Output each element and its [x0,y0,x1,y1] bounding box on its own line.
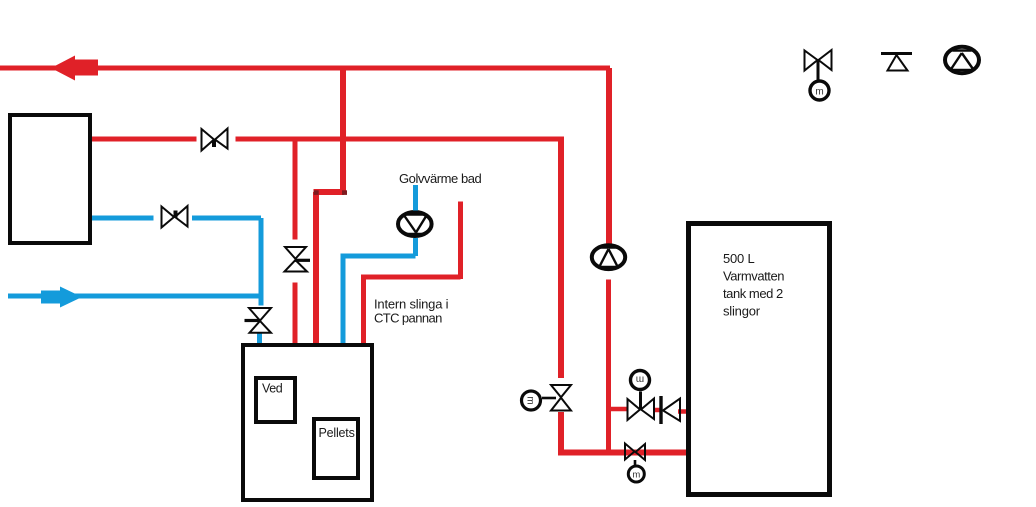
wire: blue line y218 from valve V2 right, then down x261 [192,218,261,306]
junction overdraw dots at jog corners [314,190,347,195]
motorized valve m (bottom tank line) [625,444,645,483]
wire: blue line y218 from left box to valve V2 [92,216,154,221]
wire: red line y139 from valve V1 to x564 [236,137,562,142]
3-way motor valve (on red x561) [522,385,572,411]
valve V1 (red line y139) [202,129,228,151]
svg-text:m: m [815,87,823,98]
wire: red line y139 from left box to valve V1 [92,137,197,142]
svg-text:500 L: 500 L [723,251,755,266]
wire: blue intern slinga (up from CTC box, right to pump riser) [341,238,416,344]
blue flow arrow pointing right [41,287,82,308]
wire: blue return line y296 with arrow [8,294,259,299]
wire: red vertical x295 from y139 down to hourglass valve H1 [293,139,298,240]
valve V2 (blue line y218) [162,206,188,228]
svg-text:Ved: Ved [262,382,283,396]
hourglass valve H2 (on blue x260) with left bar [245,308,272,333]
wire: blue stub above pump P1 (open end) [413,185,418,211]
svg-text:Varmvatten: Varmvatten [723,269,784,284]
Pellets box [314,419,358,478]
wire: red intern slinga loop (up from CTC box, right, up to open end) [361,202,461,345]
label: Intern slinga i CTC pannan [374,297,449,326]
wire: top red supply line [0,66,610,71]
svg-text:slingor: slingor [723,304,761,319]
svg-text:Intern slinga i: Intern slinga i [374,297,449,312]
wire: red vertical x561 from y139 down to 3-way valve [558,137,564,379]
hot water tank box [689,224,830,495]
svg-text:Golvvärme bad: Golvvärme bad [399,171,482,186]
wire: red branch y409 toward motor valve [606,407,627,412]
legend: safety valve symbol [881,54,912,71]
wire: red stub from check valve to tank [678,409,686,414]
svg-text:m: m [636,374,644,385]
left heat source box [10,115,90,243]
wire: red vertical x343 from top line down to jog y192 [340,68,346,192]
wire: red vertical x608.5 below pump down to bottom line [606,280,611,453]
check valve (upper tank line) [661,396,680,424]
pump P1 Golvvärme (on blue riser) [398,212,432,236]
motorized valve (upper tank line) [628,371,655,421]
svg-text:Pellets: Pellets [319,426,355,440]
wire: red vertical x317 from jog down to CTC box [313,192,319,344]
pump P2 (on red riser) [592,245,625,269]
wire: red stub x295 from valve H1 to CTC box [293,283,298,345]
svg-text:m: m [632,470,640,481]
svg-text:m: m [525,396,536,404]
wire: blue stub from valve H2 to CTC box [257,334,262,345]
svg-text:tank med 2: tank med 2 [723,286,783,301]
CTC pannan box [243,345,372,500]
svg-text:CTC pannan: CTC pannan [374,311,442,326]
Ved box [256,378,295,422]
wire: red from 3-way valve down and right to tank (bottom line) [558,412,686,453]
wire: red jog y192 [314,189,345,195]
wire: red stub between motor valve and check valve [655,408,661,413]
label: Golvvärme bad [399,171,482,186]
wire: red vertical drop x609 from top line to pump [606,68,612,244]
hourglass valve H1 (on red x295) with right bar [285,247,311,272]
red flow arrow pointing left [51,56,98,81]
legend: motor valve symbol [805,50,832,100]
legend: pump symbol [945,47,979,73]
